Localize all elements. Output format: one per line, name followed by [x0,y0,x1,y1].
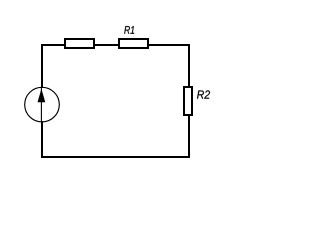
wire: left rail, upper segment to current source [41,44,43,88]
current source J1: circle [25,87,60,122]
resistor (unlabeled, top left) [65,39,94,48]
current source J1: arrow head [38,89,46,103]
label R2 [197,90,210,98]
wire: top rail, left corner to first resistor [41,44,66,46]
wire: right rail, upper segment to R2 [188,44,190,88]
resistor R1 [119,39,148,48]
current source J1: arrow stem [40,88,42,121]
wire: top rail, R1 to top-right corner [147,44,190,46]
label R1 [124,26,134,34]
resistor R2 [184,87,192,115]
wire: left rail, lower segment from current source [41,121,43,158]
wire: right rail, lower segment from R2 [188,114,190,158]
wire: bottom rail [41,156,190,158]
wire: top rail, between first resistor and R1 [93,44,120,46]
